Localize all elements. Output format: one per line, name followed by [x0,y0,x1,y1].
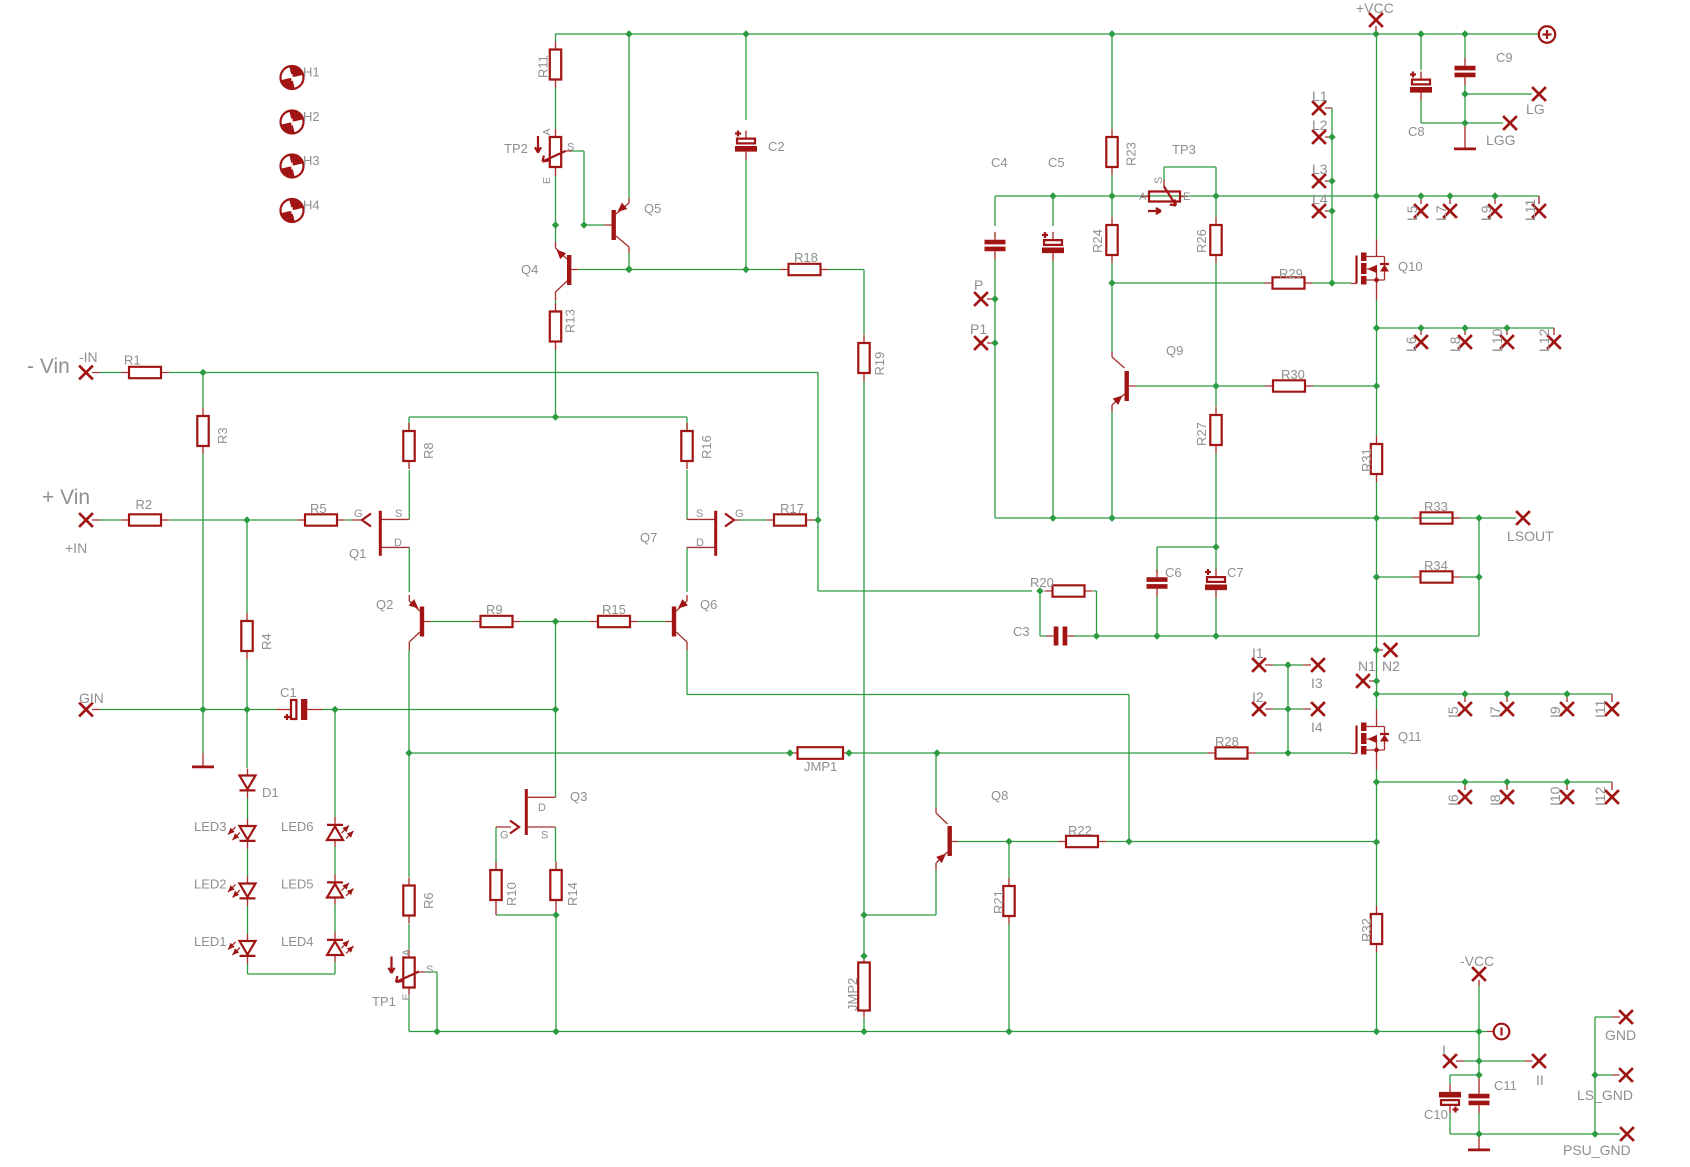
svg-text:I2: I2 [1252,689,1264,705]
svg-text:LG: LG [1526,101,1545,117]
svg-text:C7: C7 [1227,565,1244,580]
svg-text:S: S [426,964,433,976]
svg-text:I10: I10 [1547,786,1563,806]
svg-text:LED5: LED5 [281,877,314,892]
svg-text:H1: H1 [303,65,320,80]
svg-text:E: E [541,177,553,184]
svg-text:+VCC: +VCC [1356,0,1394,16]
svg-text:S: S [541,830,548,842]
svg-text:LED4: LED4 [281,934,314,949]
svg-text:E: E [1183,191,1190,203]
svg-text:G: G [354,508,363,520]
svg-text:Q11: Q11 [1398,729,1422,744]
svg-text:D1: D1 [262,785,279,800]
svg-text:R31: R31 [1359,448,1374,472]
svg-text:LGG: LGG [1486,132,1516,148]
svg-text:L11: L11 [1522,198,1538,221]
svg-text:S: S [395,508,402,520]
svg-text:Q8: Q8 [991,788,1008,803]
svg-text:PSU_GND: PSU_GND [1563,1142,1631,1158]
svg-text:R9: R9 [486,602,503,617]
svg-text:D: D [696,537,704,549]
svg-text:A: A [401,949,413,956]
svg-text:Q10: Q10 [1398,259,1423,274]
svg-text:R8: R8 [421,442,436,459]
svg-text:R34: R34 [1424,558,1448,573]
svg-text:LED1: LED1 [194,934,227,949]
svg-text:H3: H3 [303,153,320,168]
svg-text:L2: L2 [1312,117,1328,133]
svg-text:R3: R3 [215,427,230,444]
svg-text:TP1: TP1 [372,994,396,1009]
svg-text:D: D [538,802,546,814]
svg-text:H2: H2 [303,109,320,124]
svg-text:JMP1: JMP1 [804,759,837,774]
svg-text:D: D [394,537,402,549]
svg-text:-IN: -IN [79,349,98,365]
svg-text:R27: R27 [1194,422,1209,446]
svg-text:R13: R13 [563,309,578,333]
svg-text:+ Vin: + Vin [42,486,90,509]
svg-text:Q6: Q6 [700,597,717,612]
svg-text:I11: I11 [1592,699,1608,718]
svg-text:C3: C3 [1013,624,1030,639]
svg-text:I6: I6 [1445,794,1461,806]
svg-text:L7: L7 [1433,205,1449,221]
svg-text:E: E [401,993,413,1000]
svg-text:R1: R1 [124,353,141,368]
svg-text:-VCC: -VCC [1460,953,1494,969]
svg-text:C10: C10 [1424,1107,1448,1122]
svg-text:H4: H4 [303,198,320,213]
svg-text:Q9: Q9 [1166,343,1183,358]
svg-text:G: G [500,830,509,842]
svg-text:I1: I1 [1252,645,1264,661]
svg-text:GIN: GIN [79,690,104,706]
svg-text:R4: R4 [259,633,274,650]
svg-text:L1: L1 [1312,88,1328,104]
svg-text:I9: I9 [1547,706,1563,718]
svg-text:C1: C1 [280,685,297,700]
svg-text:LS_GND: LS_GND [1577,1087,1633,1103]
svg-text:C4: C4 [991,155,1008,170]
svg-text:C6: C6 [1165,565,1182,580]
svg-text:R28: R28 [1215,734,1239,749]
svg-text:G: G [735,508,744,520]
svg-text:GND: GND [1605,1027,1636,1043]
svg-text:I3: I3 [1311,675,1323,691]
svg-text:L4: L4 [1312,191,1328,207]
svg-text:R14: R14 [565,882,580,906]
svg-text:+IN: +IN [65,540,87,556]
svg-text:L8: L8 [1447,336,1463,352]
svg-text:I12: I12 [1592,786,1608,806]
svg-text:C8: C8 [1408,124,1425,139]
svg-text:S: S [567,142,574,154]
svg-text:P: P [974,277,983,293]
svg-text:I7: I7 [1487,706,1503,718]
svg-text:I: I [1442,1042,1446,1058]
svg-text:Q2: Q2 [376,597,393,612]
svg-text:TP3: TP3 [1172,142,1196,157]
svg-text:R23: R23 [1124,142,1139,166]
svg-text:TP2: TP2 [504,141,528,156]
svg-text:L12: L12 [1536,328,1552,352]
svg-text:R17: R17 [780,501,804,516]
svg-text:II: II [1536,1072,1544,1088]
svg-text:L5: L5 [1404,205,1420,221]
svg-text:R26: R26 [1194,229,1209,253]
svg-text:R2: R2 [136,497,153,512]
svg-text:L3: L3 [1312,161,1328,177]
svg-text:C5: C5 [1048,155,1065,170]
svg-text:C9: C9 [1496,50,1513,65]
svg-text:R32: R32 [1359,918,1374,942]
svg-text:I5: I5 [1445,706,1461,718]
svg-text:R19: R19 [872,352,887,376]
svg-text:LED3: LED3 [194,819,227,834]
svg-text:I4: I4 [1311,719,1323,735]
svg-text:Q7: Q7 [640,530,657,545]
svg-text:L10: L10 [1489,328,1505,352]
svg-text:R30: R30 [1281,367,1305,382]
svg-text:JMP2: JMP2 [845,978,860,1011]
svg-text:LED2: LED2 [194,877,227,892]
svg-text:R6: R6 [421,892,436,909]
svg-text:R20: R20 [1030,575,1054,590]
svg-text:R5: R5 [310,501,327,516]
svg-text:N2: N2 [1382,658,1400,674]
svg-text:Q1: Q1 [349,546,366,561]
svg-text:R21: R21 [991,890,1006,914]
svg-text:R29: R29 [1279,266,1303,281]
svg-text:R10: R10 [504,882,519,906]
svg-text:P1: P1 [970,321,987,337]
svg-text:R16: R16 [699,435,714,459]
svg-text:I8: I8 [1487,794,1503,806]
svg-text:R18: R18 [794,250,818,265]
svg-text:S: S [696,508,703,520]
svg-text:L9: L9 [1478,205,1494,221]
svg-text:R11: R11 [536,55,551,78]
svg-text:LSOUT: LSOUT [1507,528,1554,544]
svg-text:S: S [1153,177,1165,184]
svg-text:C2: C2 [768,139,785,154]
svg-text:C11: C11 [1494,1078,1517,1093]
svg-text:R15: R15 [602,602,626,617]
svg-text:Q3: Q3 [570,789,587,804]
svg-text:LED6: LED6 [281,819,314,834]
svg-text:R22: R22 [1068,823,1092,838]
svg-text:R33: R33 [1424,499,1448,514]
svg-text:Q4: Q4 [521,262,538,277]
svg-text:A: A [541,128,553,135]
svg-text:R24: R24 [1090,229,1105,253]
svg-text:L6: L6 [1403,336,1419,352]
svg-text:N1: N1 [1358,658,1376,674]
svg-text:- Vin: - Vin [27,355,70,378]
svg-text:A: A [1139,191,1147,203]
svg-text:Q5: Q5 [644,201,661,216]
